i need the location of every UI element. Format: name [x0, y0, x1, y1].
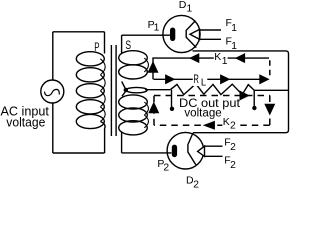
svg-text:P: P [94, 40, 99, 54]
arrow K2 down right [265, 104, 274, 113]
RL annotation line [154, 78, 269, 80]
resistor RL zigzag [170, 84, 254, 95]
arrow K2 top [240, 92, 248, 100]
filament of D1 [186, 21, 196, 48]
label K1 [214, 51, 228, 67]
svg-text:1: 1 [187, 4, 193, 15]
filament of D2 [188, 133, 196, 165]
node RL left dot [170, 107, 174, 111]
svg-text:1: 1 [222, 56, 228, 67]
wire secondary top to P1 [122, 34, 171, 36]
filament lead F1 top [200, 29, 222, 31]
svg-text:R: R [193, 72, 199, 86]
svg-text:1: 1 [154, 23, 160, 34]
K1 loop line [153, 58, 269, 79]
svg-text:2: 2 [230, 160, 236, 171]
filament triangle D1 [190, 29, 200, 39]
svg-text:voltage: voltage [184, 107, 221, 119]
wire primary left lower [52, 103, 54, 153]
svg-text:S: S [125, 38, 131, 52]
center tap node [124, 88, 128, 92]
diode D1 [163, 15, 200, 52]
secondary winding S [121, 35, 123, 53]
svg-text:1: 1 [231, 41, 237, 52]
arrow up on K1 left leg [149, 63, 158, 72]
filament triangle D2 [198, 146, 205, 156]
arrow K2 bottom [205, 122, 214, 129]
arrow K1 mid-right [236, 54, 244, 62]
arrow K1 mid-left [191, 54, 199, 62]
node RL right stub [253, 90, 255, 106]
node RL right dot [252, 106, 256, 110]
label RL [193, 72, 208, 89]
wire secondary bottom to P2 [122, 152, 172, 154]
K2 dashed loop top [154, 95, 270, 97]
svg-text:K: K [214, 51, 221, 63]
primary winding P [104, 32, 106, 54]
resistor RL lead right [254, 89, 288, 91]
K2 dashed loop right [269, 96, 271, 126]
K2 dashed loop bottom [154, 124, 270, 126]
AC source G1 [41, 80, 64, 103]
svg-text:2: 2 [230, 142, 236, 153]
label K2 [222, 116, 236, 132]
wire primary left upper [52, 32, 54, 80]
arrow up on K2 left [149, 103, 158, 112]
plate P1 of D1 [170, 28, 175, 42]
K2 dashed loop left [153, 96, 155, 126]
arrow RL 2 [221, 75, 229, 83]
wire primary bottom [53, 152, 105, 154]
arrow RL 1 [166, 75, 174, 83]
filament lead F2 bottom [205, 155, 223, 157]
node RL left stub [171, 90, 173, 107]
svg-text:K: K [223, 116, 230, 128]
svg-text:2: 2 [230, 120, 236, 131]
plate P2 of D2 [172, 145, 177, 158]
diode D2 [167, 132, 204, 169]
svg-text:2: 2 [163, 163, 169, 174]
wire primary top [53, 31, 105, 33]
filament lead F2 top [205, 145, 223, 147]
dashed link right between K1 and RL lines [269, 60, 271, 77]
filament lead F1 bottom [200, 38, 222, 40]
resistor RL lead left [145, 89, 170, 91]
transformer core [111, 45, 116, 136]
cathode bus wire [193, 51, 289, 133]
svg-text:L: L [201, 78, 207, 89]
arrow RL 3 [260, 75, 268, 83]
svg-text:1: 1 [231, 23, 237, 34]
svg-text:2: 2 [193, 179, 199, 190]
svg-text:voltage: voltage [6, 116, 45, 130]
